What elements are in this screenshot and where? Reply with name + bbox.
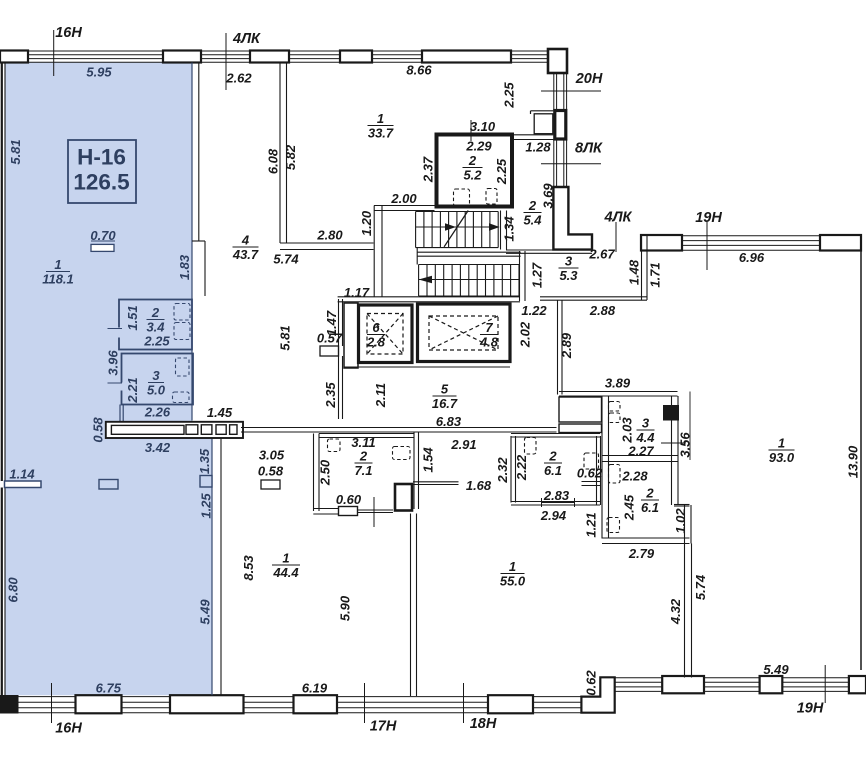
svg-text:6.19: 6.19 [302,681,328,696]
svg-text:1: 1 [778,435,785,450]
svg-text:3.96: 3.96 [105,350,120,376]
svg-text:2.25: 2.25 [501,82,516,109]
svg-text:1.14: 1.14 [9,466,35,481]
svg-text:4.32: 4.32 [668,598,683,625]
svg-text:1.20: 1.20 [359,210,374,236]
svg-text:1.21: 1.21 [583,512,598,537]
svg-text:2.27: 2.27 [627,443,654,458]
svg-text:6.83: 6.83 [436,414,462,429]
svg-text:2.03: 2.03 [619,417,634,444]
svg-text:19Н: 19Н [797,700,824,716]
svg-text:0.62: 0.62 [583,670,598,696]
svg-text:0.58: 0.58 [90,417,105,443]
svg-text:5.74: 5.74 [693,574,708,600]
svg-text:2.37: 2.37 [420,156,435,183]
svg-text:6.08: 6.08 [265,148,280,174]
svg-text:93.0: 93.0 [769,450,795,465]
svg-text:2.00: 2.00 [390,191,417,206]
svg-text:5.2: 5.2 [463,167,482,182]
svg-text:1.51: 1.51 [125,305,140,330]
svg-text:0.62: 0.62 [577,465,603,480]
svg-text:2: 2 [151,305,160,320]
svg-text:2: 2 [548,448,557,463]
svg-text:2.45: 2.45 [621,494,636,521]
svg-text:5: 5 [441,381,449,396]
svg-text:2.80: 2.80 [316,227,343,242]
svg-text:3.4: 3.4 [146,319,165,334]
svg-text:1.25: 1.25 [198,493,213,519]
svg-text:2.25: 2.25 [494,158,509,185]
svg-text:44.4: 44.4 [272,565,299,580]
svg-text:1.48: 1.48 [626,259,641,285]
svg-text:5.82: 5.82 [283,144,298,170]
svg-text:2.83: 2.83 [543,488,570,503]
svg-text:2: 2 [359,448,368,463]
svg-text:1.28: 1.28 [525,139,551,154]
svg-text:2.32: 2.32 [495,457,510,484]
svg-text:1: 1 [509,559,516,574]
svg-text:2.79: 2.79 [628,546,655,561]
svg-text:6.80: 6.80 [5,577,20,603]
svg-text:33.7: 33.7 [368,125,394,140]
svg-text:5.90: 5.90 [337,595,352,621]
svg-text:Н-16: Н-16 [77,145,126,170]
svg-text:8ЛК: 8ЛК [575,140,603,156]
svg-text:2.67: 2.67 [588,246,615,261]
svg-text:1.54: 1.54 [420,447,435,473]
svg-text:126.5: 126.5 [73,170,129,195]
svg-text:1: 1 [54,257,61,272]
svg-text:43.7: 43.7 [232,247,259,262]
svg-text:17Н: 17Н [370,718,397,734]
svg-text:5.81: 5.81 [8,139,23,164]
svg-text:2.50: 2.50 [317,459,332,486]
svg-text:6.1: 6.1 [544,463,562,478]
svg-text:1.17: 1.17 [344,285,370,300]
svg-text:2: 2 [528,198,537,213]
svg-text:2.91: 2.91 [450,437,476,452]
svg-text:3.05: 3.05 [259,447,285,462]
svg-text:3.56: 3.56 [677,432,692,458]
svg-text:16Н: 16Н [55,25,82,41]
svg-text:1: 1 [377,111,384,126]
svg-text:3.89: 3.89 [605,375,631,390]
svg-text:118.1: 118.1 [42,271,74,286]
svg-text:1.34: 1.34 [501,216,516,242]
svg-text:4.8: 4.8 [479,334,499,349]
svg-text:2.25: 2.25 [143,333,170,348]
svg-text:8.53: 8.53 [241,555,256,581]
svg-text:1.27: 1.27 [529,262,544,288]
svg-text:13.90: 13.90 [845,445,860,478]
svg-text:0.70: 0.70 [90,228,116,243]
svg-text:16.7: 16.7 [432,396,458,411]
svg-text:4: 4 [241,232,250,247]
svg-text:8.66: 8.66 [406,62,432,77]
svg-text:5.49: 5.49 [763,662,789,677]
svg-text:2.11: 2.11 [373,383,388,408]
svg-text:5.4: 5.4 [523,212,542,227]
svg-text:3.69: 3.69 [540,183,555,209]
svg-text:1.71: 1.71 [647,262,662,287]
svg-text:1.35: 1.35 [197,448,212,474]
svg-text:2.8: 2.8 [366,334,386,349]
svg-text:7.1: 7.1 [354,463,372,478]
svg-text:6.96: 6.96 [739,250,765,265]
svg-text:7: 7 [485,320,493,335]
svg-text:1.02: 1.02 [673,508,688,534]
svg-text:5.3: 5.3 [559,268,578,283]
svg-text:0.58: 0.58 [258,463,284,478]
svg-text:18Н: 18Н [470,716,497,732]
svg-text:5.74: 5.74 [273,251,299,266]
svg-text:5.95: 5.95 [86,64,112,79]
svg-text:3.42: 3.42 [145,440,171,455]
svg-text:2.22: 2.22 [514,454,529,481]
svg-text:0.57: 0.57 [317,330,343,345]
svg-text:2.88: 2.88 [589,303,616,318]
svg-text:2.02: 2.02 [517,321,532,348]
svg-text:5.49: 5.49 [197,599,212,625]
svg-text:16Н: 16Н [55,720,82,736]
svg-text:3: 3 [565,253,573,268]
svg-text:3.10: 3.10 [470,119,496,134]
svg-text:2.94: 2.94 [540,508,567,523]
svg-text:19Н: 19Н [695,210,722,226]
svg-text:2.29: 2.29 [465,138,492,153]
svg-text:2: 2 [468,153,477,168]
svg-text:2.28: 2.28 [621,468,648,483]
svg-text:1: 1 [282,550,289,565]
svg-text:4ЛК: 4ЛК [604,209,633,225]
svg-text:2.89: 2.89 [559,332,574,359]
svg-text:1.45: 1.45 [207,405,233,420]
svg-text:4ЛК: 4ЛК [232,31,261,47]
svg-text:20Н: 20Н [575,71,603,87]
svg-text:5.81: 5.81 [277,325,292,350]
svg-text:1.22: 1.22 [521,303,547,318]
svg-text:3: 3 [642,415,650,430]
svg-text:2.62: 2.62 [225,70,252,85]
svg-text:1.83: 1.83 [177,254,192,280]
svg-text:2.21: 2.21 [125,377,140,403]
svg-text:2.35: 2.35 [323,382,338,409]
svg-text:0.60: 0.60 [336,492,362,507]
svg-text:1.68: 1.68 [466,478,492,493]
svg-text:3: 3 [152,368,160,383]
svg-text:2.26: 2.26 [144,404,171,419]
svg-text:6.1: 6.1 [641,500,659,515]
svg-text:55.0: 55.0 [500,573,526,588]
svg-text:6: 6 [372,320,380,335]
svg-text:6.75: 6.75 [96,681,122,696]
svg-text:2: 2 [645,485,654,500]
svg-text:5.0: 5.0 [147,382,166,397]
